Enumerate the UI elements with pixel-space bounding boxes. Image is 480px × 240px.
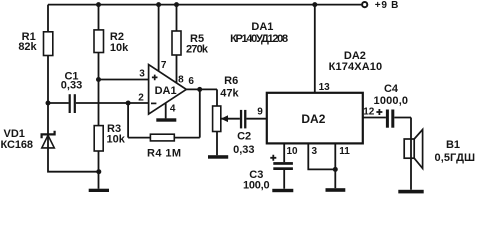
- ground under pin 11: [326, 188, 346, 192]
- wire pin 12 to C4: [363, 117, 386, 119]
- op-amp plus input mark: [152, 75, 158, 81]
- resistor R1: [44, 32, 53, 56]
- svg-text:DA2: DA2: [301, 112, 325, 126]
- terminal +9V circle: [362, 2, 367, 7]
- op-amp U1 triangle: [149, 65, 187, 115]
- svg-text:DA1: DA1: [155, 85, 177, 97]
- wire C1 left: [48, 102, 69, 104]
- svg-text:3: 3: [312, 146, 318, 157]
- wire R2/R3 column to ground: [98, 5, 100, 189]
- wire node A to pin3: [99, 79, 149, 81]
- svg-text:3: 3: [139, 69, 145, 80]
- ground under R6: [208, 155, 228, 159]
- svg-text:8: 8: [178, 74, 184, 85]
- svg-text:+9 В: +9 В: [375, 0, 399, 11]
- svg-text:C2: C2: [237, 131, 251, 143]
- wire pin 3 DA2: [308, 143, 335, 169]
- svg-text:13: 13: [319, 82, 331, 93]
- speaker B1 horn: [414, 130, 422, 169]
- zener diode VD1: [42, 135, 55, 148]
- speaker B1 rectangle: [404, 139, 414, 158]
- svg-text:82k: 82k: [18, 41, 37, 53]
- wire C4 to speaker to ground: [394, 118, 411, 190]
- svg-text:0,33: 0,33: [61, 79, 82, 91]
- ground under R3/VD1: [89, 189, 109, 192]
- svg-text:К174ХА10: К174ХА10: [329, 61, 383, 73]
- svg-text:12: 12: [363, 107, 375, 118]
- wire pin 10 to C3: [283, 143, 285, 188]
- svg-text:C4: C4: [384, 83, 399, 95]
- resistor R3: [94, 126, 103, 151]
- svg-text:VD1: VD1: [3, 128, 24, 140]
- node junction dots: [46, 2, 338, 174]
- resistor R2: [94, 30, 104, 53]
- svg-text:10k: 10k: [107, 133, 126, 145]
- svg-text:КС168: КС168: [1, 139, 34, 151]
- ground under op-amp pin 4: [156, 118, 176, 121]
- wire C2 to pin 9: [246, 118, 266, 120]
- wire R6 wiper to C2: [221, 118, 240, 120]
- wire R4 feedback loop: [128, 89, 200, 137]
- svg-text:DA2: DA2: [344, 50, 366, 62]
- IC U2 DA2 box: [267, 93, 363, 144]
- svg-text:270k: 270k: [186, 44, 209, 56]
- wire C1 right to pin2: [76, 102, 149, 104]
- svg-text:КР140УД1208: КР140УД1208: [230, 33, 288, 45]
- resistor R6 body: [213, 106, 221, 132]
- svg-text:DA1: DA1: [251, 21, 273, 33]
- plus mark C3: [270, 155, 276, 161]
- wire pin 13: [314, 5, 316, 93]
- capacitor C2: [240, 110, 247, 128]
- wire R1/VD1 left column and bottom run: [48, 5, 99, 172]
- resistor R4: [150, 134, 174, 141]
- svg-text:6: 6: [188, 76, 194, 87]
- svg-text:B1: B1: [446, 139, 460, 151]
- svg-text:11: 11: [339, 146, 350, 157]
- svg-text:10: 10: [286, 146, 298, 157]
- plus mark C4: [376, 109, 382, 115]
- capacitor C1: [69, 94, 76, 113]
- ground under speaker: [398, 190, 423, 194]
- wire pin 4 stub: [165, 103, 167, 119]
- capacitor C4: [386, 110, 394, 128]
- zener VD1 cathode bar: [42, 131, 55, 139]
- svg-text:9: 9: [257, 107, 263, 118]
- wire output to R6 to ground: [186, 89, 217, 155]
- svg-text:10k: 10k: [110, 42, 129, 54]
- svg-text:0,5ГДШ: 0,5ГДШ: [435, 152, 476, 164]
- svg-text:100,0: 100,0: [243, 179, 270, 191]
- capacitor C3 plates: [273, 162, 293, 170]
- op-amp minus input mark: [151, 102, 156, 104]
- ground under C3: [272, 189, 293, 192]
- svg-text:R6: R6: [224, 75, 238, 87]
- wire R5 pin 8: [176, 5, 178, 83]
- svg-text:1000,0: 1000,0: [374, 95, 409, 107]
- svg-text:0,33: 0,33: [233, 144, 254, 156]
- resistor R5: [172, 31, 181, 55]
- svg-text:47k: 47k: [220, 87, 239, 99]
- resistor R6 wiper arrow: [221, 115, 228, 122]
- svg-text:4: 4: [170, 104, 176, 115]
- wire +9V rail: [48, 4, 362, 6]
- svg-text:7: 7: [161, 60, 167, 71]
- wire pin 11 to ground: [334, 143, 336, 188]
- svg-text:2: 2: [138, 92, 144, 103]
- svg-text:R4 1M: R4 1M: [147, 147, 181, 159]
- wire pin 7: [158, 5, 160, 71]
